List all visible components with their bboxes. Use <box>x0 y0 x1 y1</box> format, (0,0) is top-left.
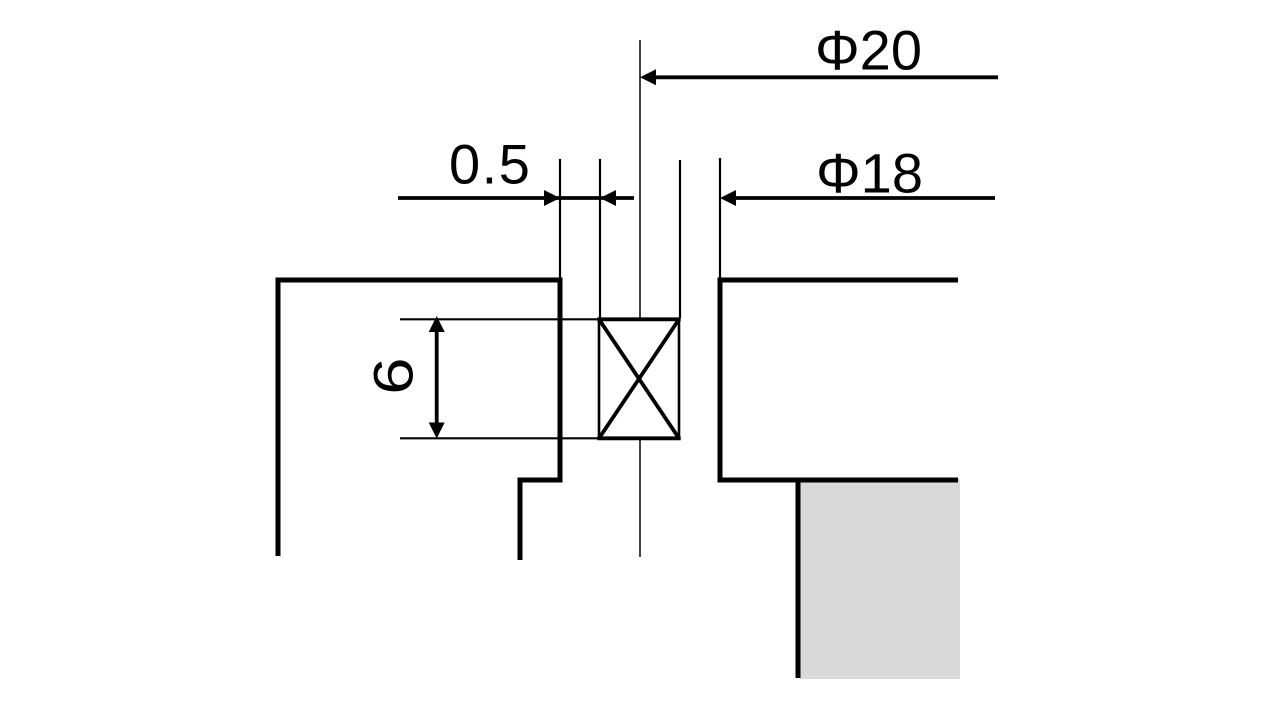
seal box right edge <box>678 318 681 440</box>
seal box bottom edge <box>597 436 680 440</box>
hatched/shaded section fill (gray block bottom right) <box>800 479 960 679</box>
dimension line PHI20 <box>652 75 998 79</box>
centerline <box>639 40 641 557</box>
extension line y=319.5 (top of 6 dim) <box>400 318 599 320</box>
svg-text:0.5: 0.5 <box>449 133 531 196</box>
left part outline <box>278 280 560 560</box>
extension line x=600 <box>599 159 601 318</box>
dimension line 0.5 (counter arrow pointing left) <box>600 190 616 206</box>
seal cross-section box (white fill hides centerline) <box>599 319 679 438</box>
right part inner vertical edge (left of gray block) <box>796 480 801 678</box>
extension line x=680 <box>679 160 681 318</box>
svg-text:Φ18: Φ18 <box>816 142 923 205</box>
svg-text:Φ20: Φ20 <box>815 19 922 82</box>
svg-text:6: 6 <box>363 357 425 394</box>
dimension line PHI18 <box>732 196 995 200</box>
seal box diagonal 1 <box>599 319 679 438</box>
extension line x=720 <box>719 158 721 280</box>
extension line y=438.5 (bottom of 6 dim) <box>400 437 599 439</box>
seal box left edge <box>598 318 601 440</box>
dimension line 6 (vertical, double arrow) <box>435 328 439 426</box>
extension line x=560 <box>559 159 561 280</box>
seal box diagonal 2 <box>599 319 679 438</box>
right part outline <box>720 280 958 480</box>
seal box top edge <box>597 317 680 321</box>
dimension line 0.5 (left arrow pointing right) <box>398 196 634 200</box>
